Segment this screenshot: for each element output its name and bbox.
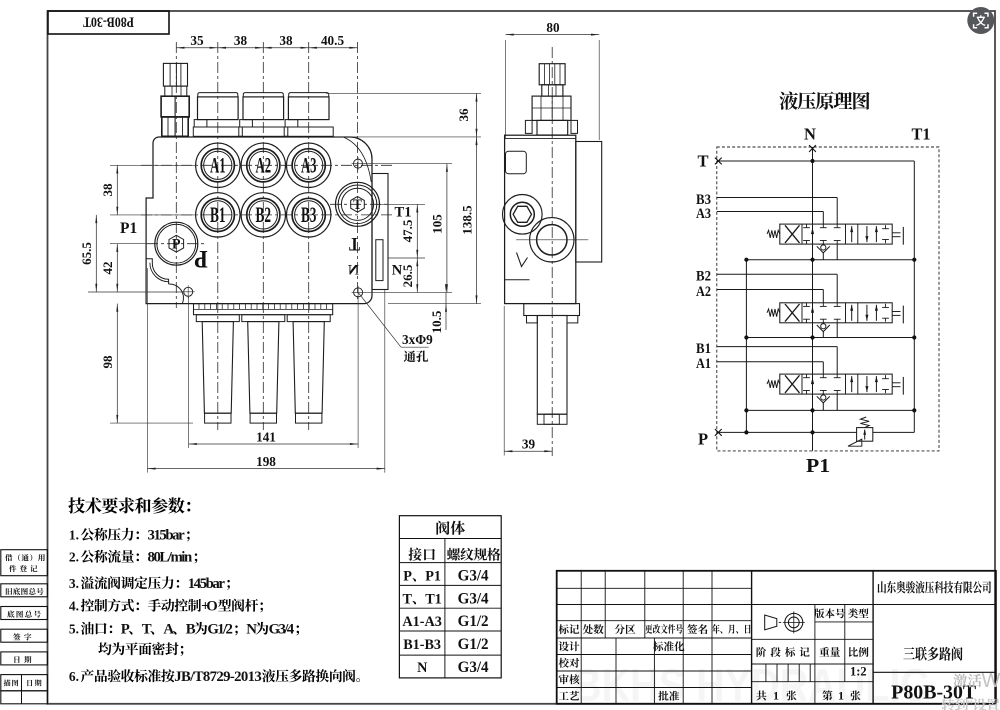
spool stem rail: [194, 304, 333, 315]
svg-text:+O: +O: [201, 599, 218, 615]
port P boss: [155, 222, 198, 265]
port table header 阀体: [436, 521, 465, 535]
dimension left 38: [110, 164, 196, 166]
spool bonnet cap 1 body: [198, 97, 239, 120]
svg-text:6.: 6.: [69, 669, 79, 684]
svg-text:N: N: [246, 622, 257, 638]
side body: [505, 135, 576, 303]
spool bonnet cap 1 flange step: [194, 120, 207, 127]
net B2 line: [717, 273, 837, 275]
svg-text:A2: A2: [256, 153, 272, 178]
svg-text:38: 38: [234, 33, 248, 48]
svg-text:": ": [968, 697, 973, 710]
port table grid: [399, 516, 501, 678]
svg-text:38: 38: [279, 33, 293, 48]
svg-text:N: N: [392, 263, 403, 279]
centerline T column: [357, 42, 359, 300]
spool 3 collar: [287, 315, 330, 322]
translate icon (top-right): [967, 7, 994, 34]
port A3 boss: [287, 143, 331, 187]
svg-text:P: P: [698, 430, 708, 449]
title block horizontal lines: [557, 587, 752, 589]
port A2 rings: [247, 149, 280, 182]
svg-text:3.: 3.: [69, 576, 79, 591]
port B2 boss: [241, 193, 285, 237]
product name 三联多路阀: [903, 647, 962, 661]
spool bonnet cap 2 flange step: [240, 120, 253, 127]
spool 1 end cap: [205, 413, 231, 423]
svg-text:138.5: 138.5: [459, 205, 474, 235]
spool bonnet cap 1 base: [193, 127, 242, 136]
port B3 boss: [287, 193, 331, 237]
side collar tab right: [571, 120, 578, 133]
svg-text:P: P: [172, 237, 181, 253]
net P pressure bus (left column): [745, 260, 747, 433]
revision header row labels: [559, 624, 580, 634]
relief valve RV1 outlet to T1: [873, 431, 915, 433]
spool bonnet cap 3 body: [288, 97, 329, 120]
spool bonnet cap 2 body: [243, 97, 284, 120]
spool 2 end cap: [250, 413, 276, 423]
dimension top 35: [176, 47, 357, 49]
port B1 rings: [201, 198, 234, 231]
relief valve RV1 body: [857, 428, 873, 442]
net T horizontal line: [717, 160, 915, 162]
svg-text:N: N: [348, 263, 359, 279]
net T plug X: [715, 158, 722, 165]
net P plug X: [715, 429, 722, 436]
net B3 line: [717, 197, 837, 199]
dimension right 138.5: [388, 303, 481, 305]
svg-text:T: T: [349, 233, 360, 254]
svg-text:T1: T1: [425, 591, 442, 607]
svg-text:4.: 4.: [69, 599, 79, 614]
svg-text:T1: T1: [395, 205, 412, 221]
net P line: [717, 431, 857, 433]
port A1 boss: [196, 143, 240, 187]
leader 3x phi9 through-hole: [358, 292, 401, 347]
svg-text:P80B-30T: P80B-30T: [83, 14, 134, 30]
side boss crosshair: [516, 239, 588, 241]
left margin block 借(通)用件登记: [1, 550, 48, 576]
svg-text:B2: B2: [256, 202, 272, 227]
svg-text:3xΦ9: 3xΦ9: [402, 332, 433, 347]
svg-text:1:2: 1:2: [850, 665, 867, 679]
pilot relief valve lower nut: [162, 117, 188, 136]
svg-text:105: 105: [430, 214, 445, 234]
svg-text:B1-B3: B1-B3: [403, 637, 441, 653]
net A1 line: [717, 361, 824, 363]
svg-text:42: 42: [100, 262, 115, 275]
side view centerline: [551, 47, 553, 456]
net B1 line: [717, 346, 837, 348]
svg-text:P1: P1: [425, 569, 441, 585]
dimension top 38 (second): [263, 47, 271, 49]
left margin block 签字: [1, 629, 48, 642]
port A2 boss: [241, 143, 285, 187]
side mounting plate (rear): [576, 142, 602, 263]
spool bonnet cap 2 top plate: [243, 93, 283, 97]
centerline A-port row: [141, 164, 392, 166]
side knurled cap: [539, 64, 565, 85]
svg-text:47.5: 47.5: [400, 219, 415, 242]
title box P80B-30T (top-left, rotated): [48, 11, 169, 34]
dimension right 47.5: [380, 203, 425, 205]
tech note 均为平面密封: [98, 642, 111, 655]
svg-text:T: T: [697, 152, 708, 171]
valve V1 under line: [780, 374, 892, 394]
body step plate right (N port side): [372, 174, 388, 290]
svg-text:P: P: [121, 622, 130, 638]
svg-text:A2: A2: [696, 284, 711, 300]
mounting hole top-right (phi9): [354, 159, 363, 168]
svg-text:G3/4: G3/4: [458, 590, 489, 607]
centerline pilot column: [175, 42, 177, 308]
mounting hole bottom-right (phi9): [354, 288, 363, 297]
dimension left 65.5: [88, 291, 183, 293]
pilot relief valve upper nut: [161, 96, 189, 117]
port P hex plug: [169, 235, 184, 252]
first-angle projection symbol: [765, 615, 777, 630]
side dimension 39: [503, 306, 505, 456]
svg-text:A1: A1: [210, 153, 226, 178]
tech requirements title 技术要求和参数: [68, 497, 85, 513]
svg-text:A1-A3: A1-A3: [402, 614, 441, 630]
side hex pivot bolt: [510, 202, 534, 226]
centerline B-port row: [141, 214, 392, 216]
middle section labels: [757, 647, 810, 657]
junction dots: [810, 159, 814, 163]
net T1 vertical line: [913, 161, 915, 432]
net A3 line: [717, 211, 824, 213]
side spool boot: [537, 316, 567, 415]
left margin block 旧底图总号: [1, 584, 48, 597]
port B3 rings: [292, 198, 325, 231]
dimension right 105: [364, 163, 452, 165]
svg-text:B2: B2: [696, 269, 711, 285]
schematic dashed enclosure: [717, 147, 939, 451]
svg-text:198: 198: [256, 454, 276, 469]
valve body outline: [146, 137, 372, 304]
svg-text:26.5: 26.5: [400, 264, 415, 287]
svg-text:1.: 1.: [69, 528, 79, 543]
body lower-left casting fillet: [146, 259, 169, 284]
spool 2 boot: [248, 322, 279, 414]
svg-text:G1/2: G1/2: [458, 636, 489, 653]
svg-text:P: P: [194, 245, 208, 272]
left margin block 日期: [1, 652, 48, 665]
spool 3 boot: [293, 322, 324, 414]
company name 山东奥骏液压科技有限公司: [878, 581, 991, 594]
side spool link boss: [530, 218, 574, 262]
side collar: [537, 120, 568, 135]
pilot relief valve neck: [165, 86, 187, 96]
side lever bracket lobe: [503, 195, 543, 235]
left margin block 描图/日期 row: [1, 675, 48, 691]
port table header 接口/螺纹规格: [408, 548, 435, 561]
valve V3 under line: [780, 224, 892, 244]
relief valve RV1 arrow: [864, 430, 866, 440]
svg-text:W: W: [982, 670, 1000, 692]
side lower collar: [524, 304, 580, 316]
svg-text:A: A: [163, 622, 174, 638]
centerline spool column 3: [308, 42, 310, 430]
svg-text:JB/T8729-2013: JB/T8729-2013: [174, 669, 261, 685]
svg-text:5.: 5.: [69, 622, 79, 637]
pilot relief valve knurled cap: [163, 63, 187, 86]
svg-text:80L/min: 80L/min: [148, 550, 193, 566]
side bracket notch: [517, 253, 528, 267]
windows activation watermark line 1 激活 W: [953, 674, 981, 688]
port A1 rings: [201, 149, 234, 182]
sheet count 共1张 第1张: [756, 690, 766, 700]
left margin block 底图总号: [1, 607, 48, 620]
net N plug X: [809, 145, 816, 152]
side adjuster nut: [542, 85, 563, 96]
svg-text:A3: A3: [301, 153, 317, 178]
dimension bottom 198: [146, 268, 148, 473]
svg-text:G3/4: G3/4: [269, 622, 295, 638]
svg-text:36: 36: [456, 108, 471, 122]
svg-text:B: B: [186, 622, 196, 638]
schematic title 液压原理图: [779, 92, 869, 110]
side dimension 80: [505, 40, 507, 138]
title block outer frame: [557, 571, 996, 704]
spool 2 collar: [242, 315, 285, 322]
svg-text:T: T: [403, 591, 413, 607]
port B2 rings: [247, 198, 280, 231]
valve V2 under line: [780, 303, 892, 323]
svg-text:A1: A1: [696, 356, 711, 372]
dimension left 42: [110, 243, 154, 245]
side collar tab left: [525, 120, 532, 133]
left margin block bottom empty row: [1, 691, 48, 704]
dimension top 40.5: [309, 47, 317, 49]
svg-text:141: 141: [256, 429, 276, 444]
svg-text:40.5: 40.5: [321, 33, 344, 48]
centerline T port row: [330, 203, 390, 205]
side spool end cap: [537, 414, 567, 424]
spool bonnet cap 2 base: [239, 127, 288, 136]
svg-text:G1/2: G1/2: [207, 622, 233, 638]
dimension left 98: [110, 422, 193, 424]
dimension right 36: [326, 92, 481, 94]
spool 3 end cap: [296, 413, 322, 423]
svg-text:1: 1: [773, 689, 779, 703]
svg-text:G3/4: G3/4: [458, 659, 489, 676]
svg-text:145bar: 145bar: [188, 576, 226, 592]
cast letter N (mirrored): [348, 263, 359, 279]
spool 1 collar: [196, 315, 239, 322]
svg-text:T: T: [142, 622, 152, 638]
port T hex plug: [351, 196, 365, 212]
svg-text:G3/4: G3/4: [458, 568, 489, 585]
svg-text:A3: A3: [696, 206, 711, 222]
step plate inner window: [376, 240, 383, 281]
svg-text:B1: B1: [210, 202, 226, 227]
dimension right 10.5: [445, 292, 447, 330]
spool bonnet cap 3 flange step: [285, 120, 298, 127]
windows activation watermark line 2 转到设置: [941, 698, 968, 710]
svg-text:2.: 2.: [69, 550, 79, 565]
svg-text:38: 38: [100, 183, 115, 197]
spool bonnet cap 3 base: [284, 127, 333, 136]
svg-text:B3: B3: [301, 202, 317, 227]
svg-text:G1/2: G1/2: [458, 613, 489, 630]
title block vertical lines: [580, 571, 582, 704]
side lower tabs: [527, 316, 538, 323]
signature column labels: [559, 641, 580, 651]
svg-text:98: 98: [100, 355, 115, 369]
spool 1 boot: [202, 322, 233, 414]
relief valve RV1 drain arrow: [848, 439, 862, 446]
spool bonnet cap 1 top plate: [198, 93, 238, 97]
svg-text:B1: B1: [696, 341, 711, 357]
svg-text:T: T: [353, 197, 362, 213]
svg-text:1: 1: [838, 689, 844, 703]
svg-text:315bar: 315bar: [148, 528, 186, 544]
svg-text:80: 80: [546, 20, 560, 35]
body casting arc near T port: [344, 137, 371, 182]
dimension right 26.5: [416, 258, 418, 292]
svg-text:T1: T1: [912, 125, 931, 144]
side lock nut: [532, 96, 571, 120]
port B1 boss: [196, 193, 240, 237]
svg-text:P: P: [403, 569, 412, 585]
svg-text:39: 39: [522, 437, 536, 452]
svg-text:65.5: 65.5: [79, 242, 94, 265]
centerline spool column 2: [262, 42, 264, 430]
port T boss: [336, 182, 380, 226]
net N vertical line: [812, 147, 814, 451]
centerline spool column 1: [217, 42, 219, 430]
svg-text:P1: P1: [120, 220, 137, 237]
dimension bottom 141: [188, 297, 190, 448]
svg-text:N: N: [804, 125, 816, 144]
relief valve RV1 spring: [860, 417, 869, 428]
net A2 line: [717, 289, 824, 291]
mounting hole bottom-left (phi9): [184, 287, 193, 296]
dimension top 38 (first): [218, 47, 226, 49]
port A3 rings: [292, 149, 325, 182]
svg-text:10.5: 10.5: [429, 310, 444, 333]
spool bonnet cap 3 top plate: [289, 93, 329, 97]
centerline P port row: [147, 243, 207, 245]
svg-text:35: 35: [190, 33, 204, 48]
svg-text:P1: P1: [806, 455, 830, 477]
side body notch: [506, 151, 527, 174]
svg-text:N: N: [417, 660, 428, 676]
